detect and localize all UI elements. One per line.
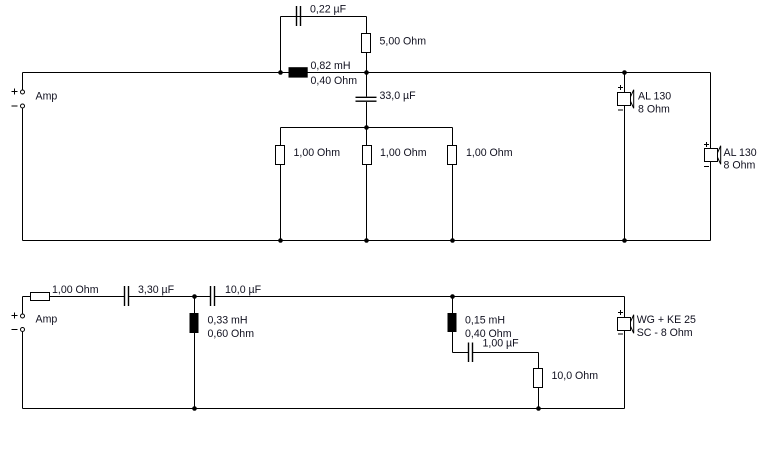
svg-text:10,0 Ohm: 10,0 Ohm: [552, 370, 599, 382]
svg-text:1,00 Ohm: 1,00 Ohm: [380, 147, 427, 159]
svg-text:Amp: Amp: [36, 314, 58, 326]
svg-text:0,40 Ohm: 0,40 Ohm: [311, 75, 358, 87]
svg-text:10,0 µF: 10,0 µF: [225, 284, 262, 296]
svg-text:0,33 mH: 0,33 mH: [208, 315, 248, 327]
svg-text:1,00 Ohm: 1,00 Ohm: [294, 147, 341, 159]
svg-text:0,82 mH: 0,82 mH: [311, 60, 351, 72]
svg-text:0,15 mH: 0,15 mH: [465, 315, 505, 327]
svg-text:5,00 Ohm: 5,00 Ohm: [380, 36, 427, 48]
svg-text:Amp: Amp: [36, 91, 58, 103]
svg-text:33,0 µF: 33,0 µF: [380, 90, 417, 102]
svg-text:1,00 µF: 1,00 µF: [483, 338, 520, 350]
svg-text:0,22 µF: 0,22 µF: [310, 4, 347, 16]
svg-text:8 Ohm: 8 Ohm: [724, 159, 756, 171]
svg-text:8 Ohm: 8 Ohm: [638, 104, 670, 116]
svg-text:SC - 8 Ohm: SC - 8 Ohm: [637, 327, 693, 339]
svg-text:AL 130: AL 130: [724, 147, 757, 159]
svg-text:1,00 Ohm: 1,00 Ohm: [466, 147, 513, 159]
svg-text:WG + KE 25: WG + KE 25: [637, 314, 696, 326]
svg-text:1,00 Ohm: 1,00 Ohm: [52, 284, 99, 296]
svg-text:AL 130: AL 130: [638, 90, 671, 102]
svg-text:3,30 µF: 3,30 µF: [138, 284, 175, 296]
svg-text:0,60 Ohm: 0,60 Ohm: [208, 328, 255, 340]
